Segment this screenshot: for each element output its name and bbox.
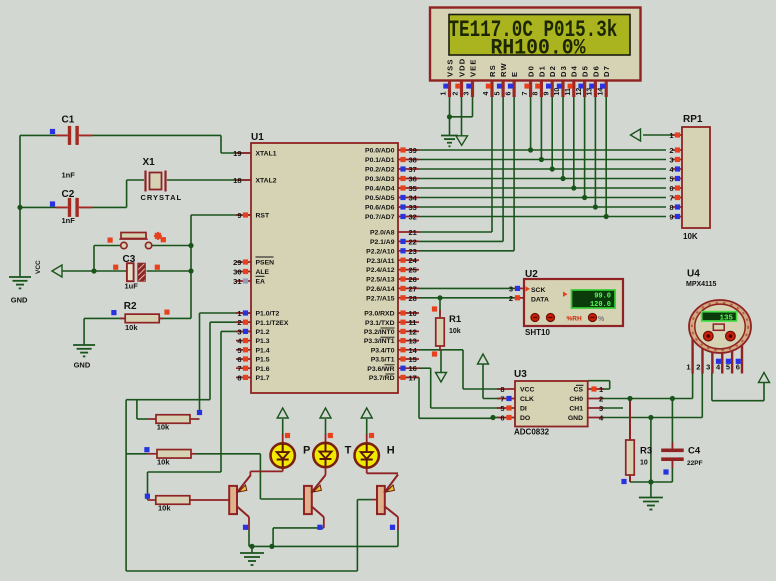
svg-text:%: % (598, 316, 605, 323)
svg-text:ADC0832: ADC0832 (514, 428, 550, 437)
svg-text:PSEN: PSEN (256, 260, 275, 267)
svg-text:P1.7: P1.7 (256, 375, 270, 382)
svg-text:XTAL2: XTAL2 (256, 178, 277, 185)
svg-text:P2.5/A13: P2.5/A13 (366, 277, 395, 284)
svg-text:135: 135 (719, 314, 733, 322)
svg-text:GND: GND (74, 361, 91, 370)
svg-text:10k: 10k (157, 423, 170, 432)
svg-text:2: 2 (696, 363, 700, 372)
svg-text:13: 13 (587, 88, 594, 96)
svg-text:3: 3 (669, 156, 673, 165)
svg-text:10k: 10k (125, 323, 138, 332)
svg-text:11: 11 (565, 88, 572, 96)
svg-text:1uF: 1uF (125, 282, 139, 291)
svg-text:8: 8 (669, 203, 673, 212)
svg-text:37: 37 (409, 165, 417, 174)
svg-text:24: 24 (409, 256, 418, 265)
svg-text:SCK: SCK (531, 287, 545, 294)
svg-text:R2: R2 (124, 301, 137, 312)
svg-text:99.0: 99.0 (594, 293, 611, 301)
svg-text:VDD: VDD (457, 58, 466, 77)
svg-text:16: 16 (409, 364, 417, 373)
svg-text:6: 6 (500, 414, 504, 423)
svg-text:%RH: %RH (567, 315, 582, 322)
svg-text:36: 36 (409, 175, 417, 184)
svg-text:U2: U2 (525, 269, 538, 280)
svg-text:2: 2 (509, 294, 513, 303)
svg-text:D5: D5 (581, 65, 590, 77)
svg-text:26: 26 (409, 275, 417, 284)
svg-text:9: 9 (237, 211, 241, 220)
svg-text:31: 31 (233, 277, 241, 286)
svg-text:13: 13 (409, 337, 417, 346)
svg-text:10K: 10K (683, 232, 698, 241)
svg-text:D7: D7 (602, 65, 611, 77)
svg-text:34: 34 (409, 194, 418, 203)
svg-text:E: E (510, 71, 519, 77)
svg-text:C3: C3 (123, 254, 136, 265)
svg-text:7: 7 (237, 364, 241, 373)
svg-text:EA: EA (256, 279, 266, 286)
svg-text:4: 4 (483, 92, 490, 96)
svg-text:17: 17 (409, 373, 417, 382)
svg-text:10: 10 (554, 88, 561, 96)
svg-text:P3.0/RXD: P3.0/RXD (364, 311, 394, 318)
svg-text:23: 23 (409, 247, 417, 256)
svg-text:1nF: 1nF (62, 216, 76, 225)
svg-text:10k: 10k (449, 328, 461, 335)
svg-text:P3.3/INT1: P3.3/INT1 (364, 338, 395, 345)
svg-text:VCC: VCC (520, 387, 534, 394)
svg-text:P2.7/A15: P2.7/A15 (366, 295, 395, 302)
svg-text:5: 5 (500, 404, 504, 413)
svg-text:VEE: VEE (468, 59, 477, 78)
svg-text:RP1: RP1 (683, 114, 703, 125)
svg-text:1: 1 (686, 363, 690, 372)
svg-text:P: P (303, 445, 310, 457)
svg-text:C1: C1 (62, 115, 75, 126)
svg-text:1: 1 (599, 385, 603, 394)
svg-text:3: 3 (706, 363, 710, 372)
svg-text:120.0: 120.0 (590, 301, 611, 309)
svg-text:RW: RW (499, 62, 508, 77)
svg-text:38: 38 (409, 156, 417, 165)
svg-text:MPX4115: MPX4115 (686, 281, 716, 288)
svg-text:D4: D4 (570, 65, 579, 77)
svg-text:15: 15 (409, 355, 417, 364)
svg-text:27: 27 (409, 284, 417, 293)
svg-text:P1.6: P1.6 (256, 366, 270, 373)
svg-text:P2.4/A12: P2.4/A12 (366, 267, 395, 274)
svg-text:P0.2/AD2: P0.2/AD2 (365, 167, 395, 174)
svg-text:P2.2/A10: P2.2/A10 (366, 248, 395, 255)
svg-text:P2.1/A9: P2.1/A9 (370, 239, 395, 246)
svg-text:3: 3 (509, 285, 513, 294)
svg-text:P1.0/T2: P1.0/T2 (256, 311, 280, 318)
svg-text:DO: DO (520, 415, 530, 422)
svg-text:R1: R1 (449, 314, 462, 325)
svg-text:T: T (345, 445, 352, 457)
svg-text:18: 18 (233, 176, 241, 185)
svg-text:21: 21 (409, 228, 417, 237)
svg-text:2: 2 (237, 318, 241, 327)
svg-text:8: 8 (237, 373, 241, 382)
svg-text:DI: DI (520, 406, 527, 413)
svg-text:C4: C4 (688, 446, 701, 457)
svg-text:P3.6/WR: P3.6/WR (367, 366, 394, 373)
svg-text:8: 8 (533, 92, 540, 96)
svg-text:3: 3 (464, 92, 471, 96)
svg-text:P3.2/INT0: P3.2/INT0 (364, 329, 395, 336)
svg-text:14: 14 (409, 346, 418, 355)
svg-text:GND: GND (568, 415, 583, 422)
svg-text:VSS: VSS (445, 59, 454, 78)
svg-text:P1.3: P1.3 (256, 338, 270, 345)
svg-text:P0.7/AD7: P0.7/AD7 (365, 214, 395, 221)
svg-text:22PF: 22PF (687, 460, 703, 467)
svg-text:2: 2 (453, 92, 460, 96)
svg-text:D0: D0 (527, 65, 536, 77)
svg-text:P1.5: P1.5 (256, 357, 270, 364)
svg-text:29: 29 (233, 258, 241, 267)
svg-text:P0.1/AD1: P0.1/AD1 (365, 157, 395, 164)
svg-text:P3.7/RD: P3.7/RD (369, 375, 395, 382)
svg-text:X1: X1 (143, 157, 156, 168)
svg-text:5: 5 (237, 346, 241, 355)
svg-text:11: 11 (409, 318, 417, 327)
svg-text:9: 9 (669, 213, 673, 222)
svg-text:35: 35 (409, 184, 417, 193)
svg-text:CH1: CH1 (569, 406, 583, 413)
svg-text:VCC: VCC (35, 260, 42, 274)
svg-text:SHT10: SHT10 (525, 328, 550, 337)
svg-text:P1.2: P1.2 (256, 329, 270, 336)
svg-text:U3: U3 (514, 369, 527, 380)
svg-text:1: 1 (669, 131, 673, 140)
svg-text:6: 6 (669, 184, 673, 193)
svg-text:12: 12 (576, 88, 583, 96)
svg-text:P0.0/AD0: P0.0/AD0 (365, 148, 395, 155)
svg-text:XTAL1: XTAL1 (256, 151, 277, 158)
svg-text:ALE: ALE (256, 269, 270, 276)
svg-text:D1: D1 (537, 65, 546, 77)
svg-text:3: 3 (237, 327, 241, 336)
svg-text:CLK: CLK (520, 396, 534, 403)
svg-text:7: 7 (522, 92, 529, 96)
svg-text:GND: GND (11, 296, 28, 305)
svg-text:28: 28 (409, 294, 417, 303)
svg-text:9: 9 (543, 92, 550, 96)
svg-text:RS: RS (488, 64, 497, 77)
svg-text:C2: C2 (62, 189, 75, 200)
svg-text:P3.1/TXD: P3.1/TXD (365, 320, 395, 327)
svg-text:P3.4/T0: P3.4/T0 (371, 347, 395, 354)
svg-text:2: 2 (599, 395, 603, 404)
svg-text:P3.5/T1: P3.5/T1 (371, 357, 395, 364)
svg-text:2: 2 (669, 146, 673, 155)
svg-text:U4: U4 (687, 269, 700, 280)
svg-text:P0.4/AD4: P0.4/AD4 (365, 186, 395, 193)
svg-text:33: 33 (409, 203, 417, 212)
svg-text:P2.0/A8: P2.0/A8 (370, 230, 395, 237)
svg-text:10: 10 (409, 309, 417, 318)
svg-text:R3: R3 (640, 446, 652, 457)
svg-text:7: 7 (500, 395, 504, 404)
svg-text:25: 25 (409, 266, 417, 275)
svg-text:14: 14 (597, 88, 604, 96)
svg-text:CRYSTAL: CRYSTAL (141, 193, 183, 202)
svg-text:DATA: DATA (531, 297, 549, 304)
svg-text:30: 30 (233, 268, 241, 277)
svg-text:8: 8 (500, 385, 504, 394)
svg-text:P1.1/T2EX: P1.1/T2EX (256, 320, 289, 327)
svg-text:32: 32 (409, 213, 417, 222)
svg-text:H: H (387, 445, 395, 457)
svg-text:RST: RST (256, 213, 270, 220)
svg-text:5: 5 (494, 92, 501, 96)
svg-text:1: 1 (441, 92, 448, 96)
svg-text:1: 1 (237, 309, 241, 318)
svg-text:7: 7 (669, 194, 673, 203)
svg-text:P1.4: P1.4 (256, 347, 270, 354)
svg-text:3: 3 (599, 404, 603, 413)
svg-text:CS: CS (574, 387, 584, 394)
svg-text:39: 39 (409, 146, 417, 155)
svg-text:10: 10 (640, 460, 648, 467)
svg-text:10k: 10k (158, 504, 171, 513)
svg-text:P0.6/AD6: P0.6/AD6 (365, 205, 395, 212)
svg-text:22: 22 (409, 237, 417, 246)
svg-text:12: 12 (409, 327, 417, 336)
svg-text:P0.3/AD3: P0.3/AD3 (365, 176, 395, 183)
svg-text:D6: D6 (591, 65, 600, 77)
svg-text:CH0: CH0 (569, 396, 583, 403)
svg-text:P2.3/A11: P2.3/A11 (367, 258, 395, 265)
svg-text:5: 5 (669, 175, 673, 184)
svg-text:RH100.0%: RH100.0% (491, 37, 586, 61)
svg-text:D3: D3 (559, 65, 568, 77)
svg-text:U1: U1 (251, 132, 264, 143)
svg-text:6: 6 (505, 92, 512, 96)
svg-text:19: 19 (233, 149, 241, 158)
svg-text:6: 6 (237, 355, 241, 364)
svg-text:D2: D2 (548, 65, 557, 77)
svg-text:P0.5/AD5: P0.5/AD5 (365, 195, 395, 202)
svg-text:10k: 10k (157, 457, 170, 466)
svg-text:1nF: 1nF (62, 171, 76, 180)
svg-text:P2.6/A14: P2.6/A14 (366, 286, 395, 293)
